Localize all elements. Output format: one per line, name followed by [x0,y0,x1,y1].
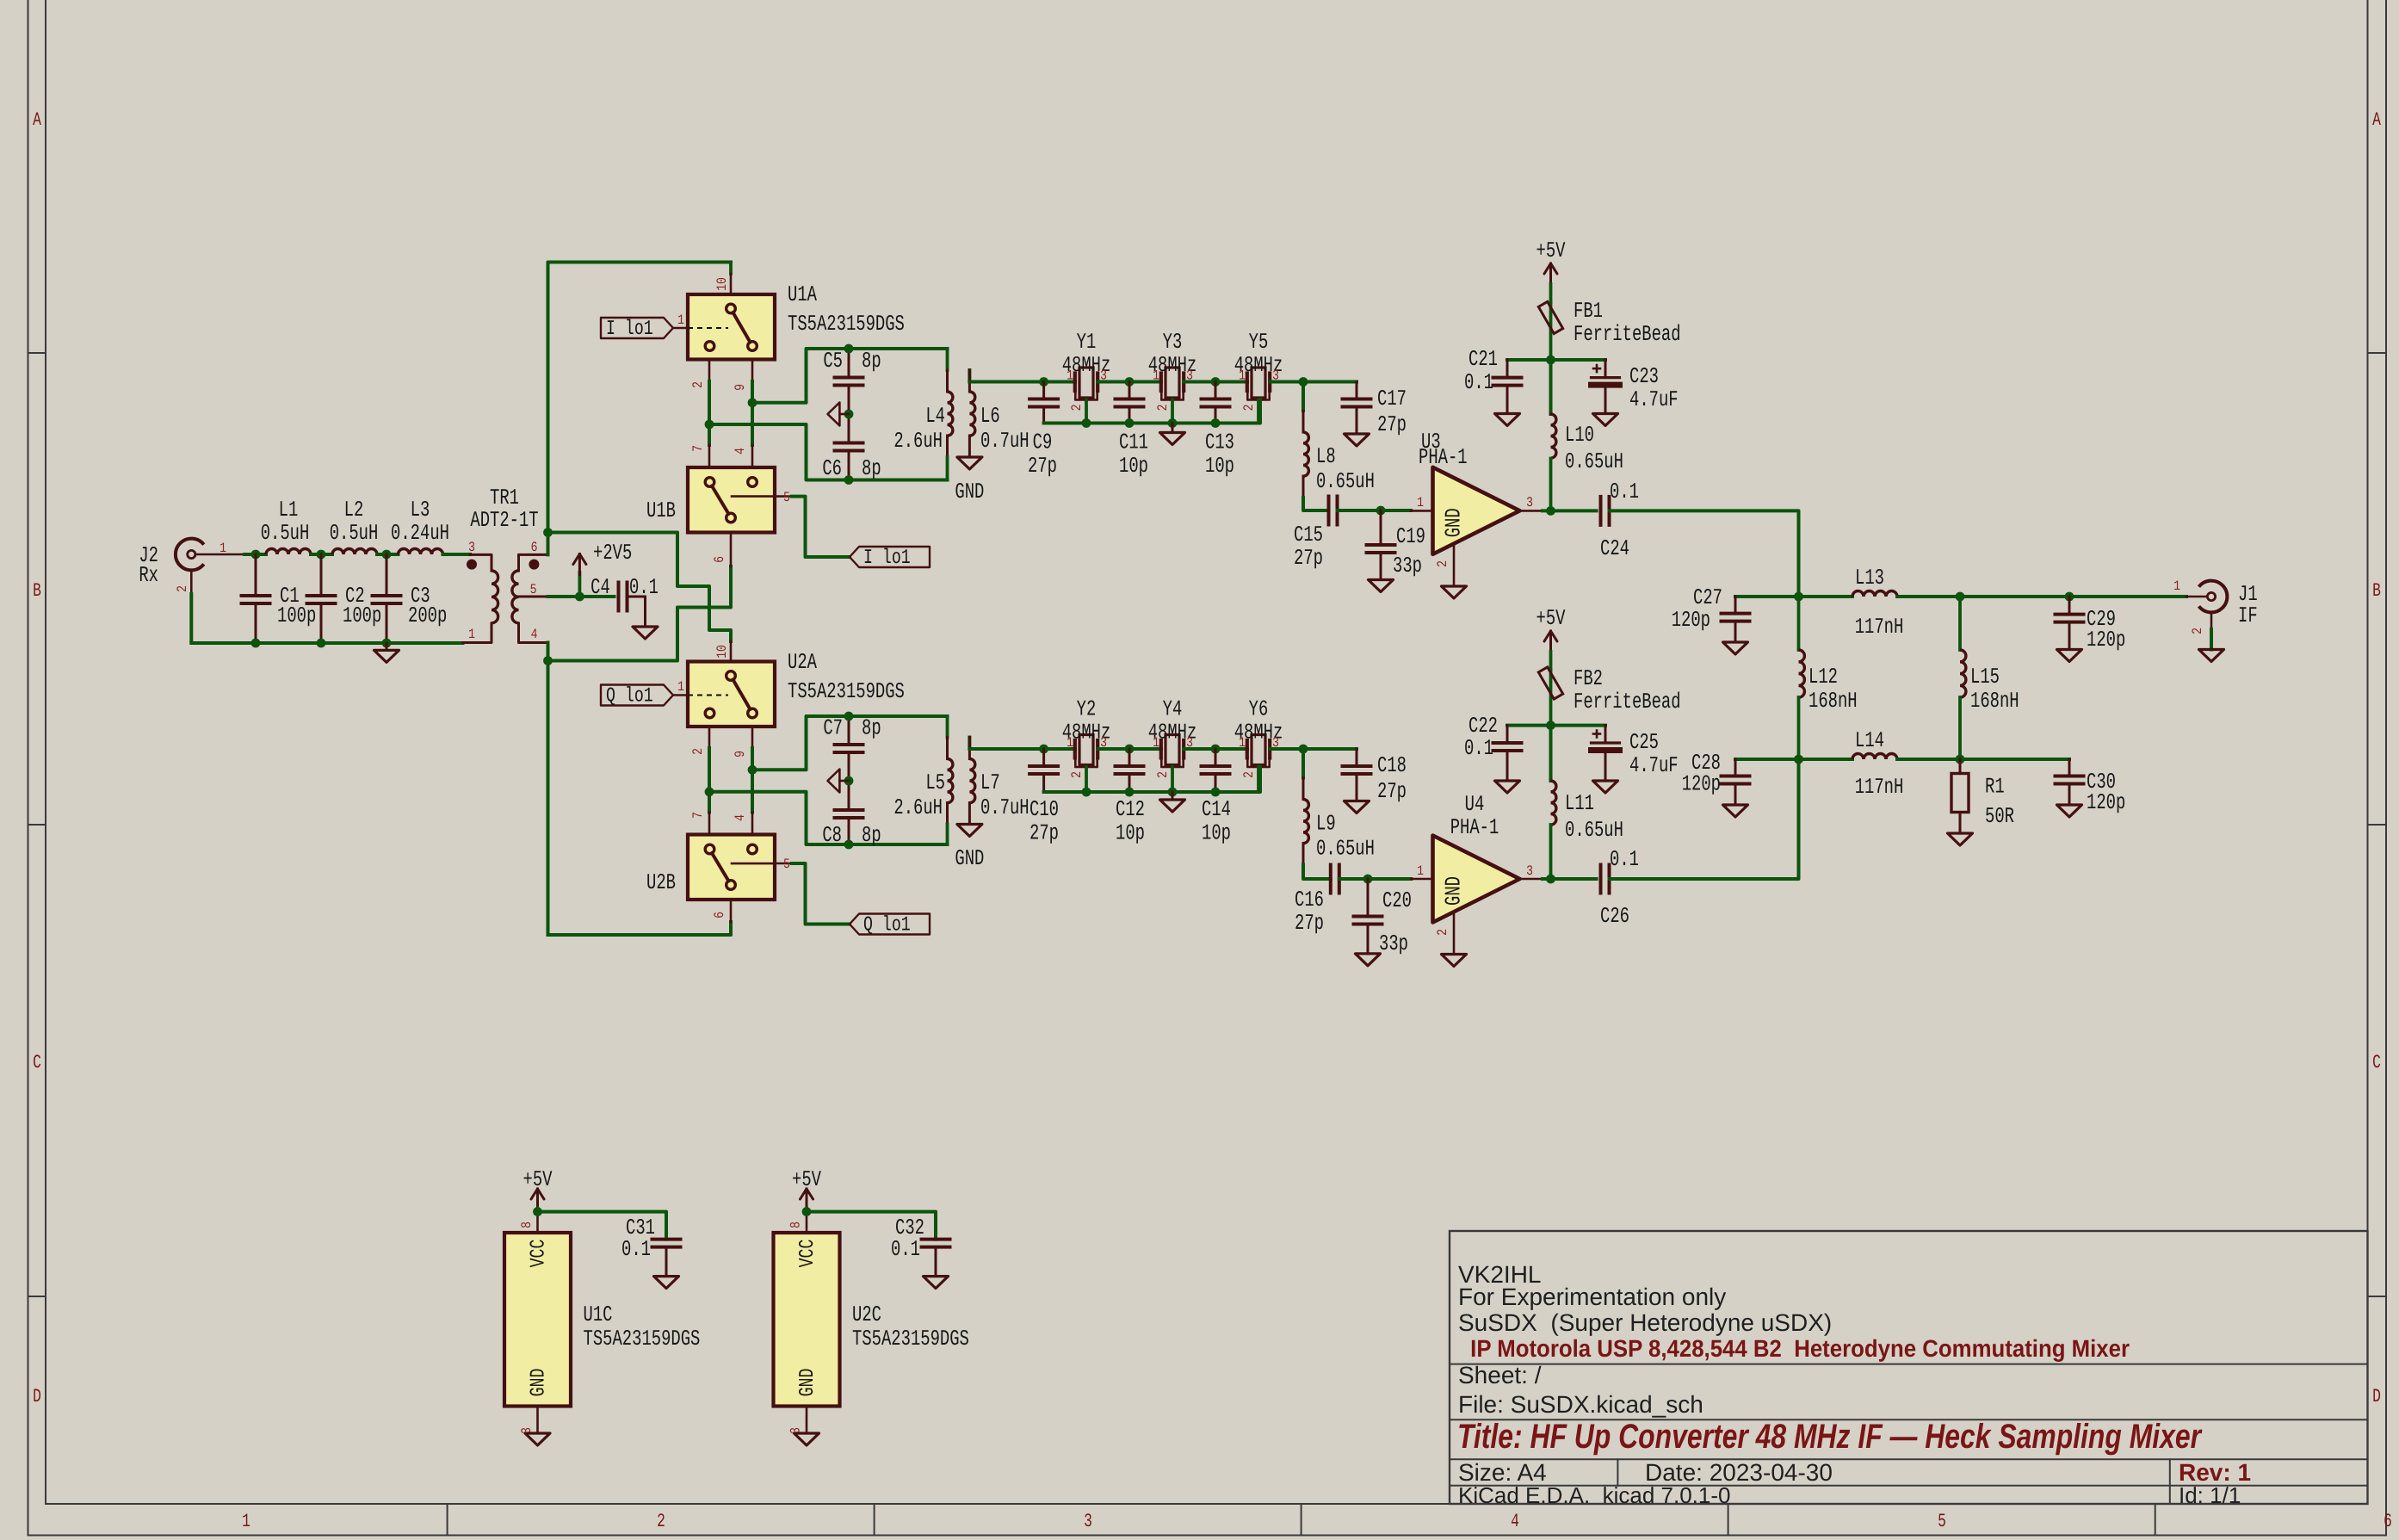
J1 pin 2 [2190,612,2211,634]
svg-text:9: 9 [733,384,748,391]
junction C7 top [844,712,854,721]
junction C3/rail [382,639,392,648]
svg-text:6: 6 [712,556,727,563]
junction C5 top [844,344,854,354]
U4 pin 1 [1411,863,1432,879]
svg-text:C21: C21 [1468,347,1498,372]
svg-text:GND: GND [955,479,984,504]
junction C11 node [1125,377,1135,387]
svg-text:117nH: 117nH [1855,615,1904,640]
svg-text:For Experimentation only: For Experimentation only [1458,1283,1726,1310]
svg-text:TR1: TR1 [490,486,519,510]
switch U1B [646,467,775,533]
svg-text:50R: 50R [1985,804,2014,829]
crystal Y5 [1247,368,1270,424]
connector J2 [139,539,203,588]
U2A pin 1 [673,679,688,696]
wire U2A pin2 to U2B pin7 [708,748,711,813]
svg-text:6: 6 [531,540,538,555]
capacitor C14 [1202,749,1231,846]
ground symbol under C31 [654,1277,679,1289]
wire U2B pin6 return [548,922,732,935]
title block date [1645,1459,1833,1486]
svg-text:C: C [33,1052,41,1073]
wire C24 to IF node [1610,510,1799,597]
net-tie arrow at C5/C6 mid [828,403,850,426]
capacitor C5 [823,349,881,414]
svg-text:1: 1 [1067,735,1073,751]
svg-text:8p: 8p [862,349,881,374]
svg-text:L11: L11 [1565,791,1594,816]
svg-text:6: 6 [2384,1511,2392,1532]
svg-text:+5V: +5V [1536,606,1566,631]
ground symbol at LPF rail [374,643,399,662]
svg-text:120p: 120p [2087,790,2125,815]
svg-text:168nH: 168nH [1809,689,1858,714]
svg-text:4.7uF: 4.7uF [1629,753,1679,778]
svg-text:4.7uF: 4.7uF [1629,387,1679,412]
junction TR1 pin4 node [543,656,553,665]
inductor L7 [969,738,1029,825]
U1C pin 3 [519,1407,538,1434]
capacitor C9 [1028,382,1058,479]
inductor L9 [1303,749,1375,879]
svg-text:C20: C20 [1382,888,1412,913]
svg-text:Y6: Y6 [1249,697,1269,722]
U2C pin 3 [788,1407,807,1434]
svg-text:8p: 8p [862,716,881,741]
crystal Y1 labels [1062,330,1111,411]
svg-text:2.6uH: 2.6uH [893,795,943,820]
svg-text:L15: L15 [1970,665,2000,690]
svg-text:SuSDX (Super Heterodyne uSDX): SuSDX (Super Heterodyne uSDX) [1458,1309,1832,1336]
svg-text:L3: L3 [411,498,430,523]
svg-text:0.24uH: 0.24uH [391,521,449,546]
svg-text:10: 10 [714,645,730,659]
svg-text:117nH: 117nH [1855,775,1904,800]
wire FB2 rail [1507,724,1605,727]
svg-text:C: C [2372,1052,2381,1073]
capacitor C28 stub [1735,758,1799,761]
capacitor C21 [1464,347,1521,414]
capacitor C26 [1600,847,1639,929]
junction C14 node [1211,745,1221,754]
svg-text:2: 2 [1435,560,1450,567]
svg-text:Y1: Y1 [1077,330,1097,355]
ground symbol under C22 [1495,781,1520,793]
svg-text:0.65uH: 0.65uH [1565,449,1623,474]
junction C9 node [1039,377,1048,387]
svg-text:C18: C18 [1377,753,1407,778]
junction at L3/C3 node [382,550,392,560]
junction FB1 node [1546,356,1555,365]
J2 pin 2 [175,570,191,594]
svg-text:0.65uH: 0.65uH [1316,837,1375,862]
power unit U2C [774,1233,969,1407]
crystal Y3 labels [1148,330,1197,411]
U2B pin 5 [775,857,850,925]
junction Y2 pin2/bus [1082,788,1091,797]
U3 pin 2 [1435,544,1454,586]
svg-text:C8: C8 [822,823,842,848]
U2B pin 7 [690,812,709,834]
junction U1C pin8 [533,1207,542,1216]
svg-text:0.1: 0.1 [891,1237,920,1262]
junction IF node [1794,592,1803,602]
wire FB1 node to L10 [1549,360,1553,414]
inductor L10 [1551,414,1623,510]
svg-text:C11: C11 [1119,430,1148,455]
global label I lo1 (input) [601,318,673,341]
capacitor C2 [307,554,382,643]
svg-text:D: D [2372,1386,2381,1407]
junction C12/bus [1125,788,1135,797]
capacitor C32 [891,1215,949,1277]
svg-text:6: 6 [712,912,727,918]
wire U2C pin8 to C32 [807,1212,936,1240]
svg-text:U1C: U1C [584,1302,613,1327]
junction FB2 node [1546,721,1555,730]
junction C7/C8 mid [844,776,854,786]
capacitor C13 [1202,382,1234,479]
svg-text:L8: L8 [1316,444,1336,469]
svg-text:Y3: Y3 [1163,330,1183,355]
junction R1 node [1956,755,1965,764]
svg-text:R1: R1 [1985,775,2005,800]
svg-text:1: 1 [1417,495,1424,510]
svg-text:2: 2 [175,585,190,592]
junction C19 node [1376,506,1386,516]
capacitor C12 [1116,749,1145,846]
svg-text:C14: C14 [1202,797,1231,822]
wire U1C pin8 to C31 [538,1212,667,1240]
global label Q lo1 (input) [601,685,673,708]
junction C6 bottom [844,475,854,485]
svg-text:U1A: U1A [788,282,817,307]
ground symbol under C17 [1345,434,1370,446]
op-amp U3 [1419,430,1520,554]
U1A pin 2 [690,360,709,388]
ground symbol under C29 [2057,650,2082,662]
ground symbol under C19 [1369,580,1394,592]
U1B pin 4 [733,445,752,467]
U1B pin 7 [690,445,709,467]
svg-text:8: 8 [519,1221,535,1228]
inductor L14 [1852,728,1903,800]
junction C8 bottom [844,840,854,850]
svg-text:120p: 120p [1682,772,1721,797]
svg-text:10p: 10p [1116,821,1145,846]
svg-text:2.6uH: 2.6uH [893,429,943,454]
TR1 pin 6 [519,540,548,571]
svg-text:Q lo1: Q lo1 [606,685,653,708]
U3 pin 3 [1520,495,1543,510]
svg-text:0.7uH: 0.7uH [980,795,1029,820]
wire TR1 pin4 down [547,643,550,936]
svg-text:8: 8 [788,1221,804,1228]
junction L8 node [1299,377,1308,387]
svg-text:2: 2 [657,1511,665,1532]
ferrite bead FB2 [1538,666,1680,726]
svg-text:TS5A23159DGS: TS5A23159DGS [788,679,905,704]
svg-text:2: 2 [1241,771,1257,778]
svg-text:+5V: +5V [792,1167,821,1192]
U3 pin 1 [1411,495,1433,510]
svg-text:GND: GND [955,846,984,871]
crystal Y6 labels [1234,697,1283,778]
junction U3 out node [1546,506,1555,516]
U1A pin 1 [673,312,688,328]
capacitor C18 [1343,749,1407,804]
TR1 pin 3 [468,540,492,571]
junction C20 node [1363,875,1373,884]
capacitor C3 [373,554,448,643]
wire U1A pin9 to U1B pin4 [751,381,754,445]
svg-text:+5V: +5V [1536,238,1566,263]
wire pin9 node to filter top (Q) [752,716,948,770]
svg-text:2: 2 [1069,771,1085,778]
wire U1A pin2 to U1B pin7 [708,381,711,445]
crystal Y4 labels [1148,697,1197,778]
svg-text:1: 1 [1067,368,1073,384]
svg-text:GND: GND [1442,508,1467,537]
ground symbol under C20 [1356,954,1381,966]
junction TR1 pin6 node [543,528,553,537]
svg-text:L10: L10 [1565,423,1594,448]
svg-text:Title: HF Up Converter 48 MHz: Title: HF Up Converter 48 MHz IF — Heck … [1457,1418,2203,1456]
wire C15 to U3 pin1 [1338,509,1412,512]
svg-text:C17: C17 [1377,387,1407,411]
U2A pin 2 [690,727,709,755]
crystal Y6 [1247,735,1270,793]
capacitor C23 (polarized) [1592,360,1679,414]
svg-text:C7: C7 [823,716,843,741]
svg-text:3: 3 [1084,1511,1092,1532]
wire Y3 to Y5 [1184,380,1247,384]
crystal Y5 labels [1234,330,1283,411]
global label Q lo1 (output) [850,914,930,937]
svg-text:C16: C16 [1295,888,1324,912]
ground symbol under C25 [1593,781,1618,793]
svg-text:Y4: Y4 [1163,697,1183,722]
junction C29 node [2065,592,2074,602]
svg-text:Sheet: /: Sheet: / [1458,1362,1542,1388]
ground symbol under J1 [2199,650,2224,662]
svg-text:33p: 33p [1379,931,1408,956]
ground symbol at U3 pin2 [1442,586,1467,598]
svg-text:1: 1 [219,541,226,556]
svg-text:Q lo1: Q lo1 [863,914,911,937]
inductor L5 [893,716,953,844]
svg-text:27p: 27p [1029,821,1059,846]
title block comment 4 [1464,1335,2130,1362]
U1B pin 5 [775,490,850,557]
power symbol +5V (FB1) [1536,238,1566,302]
ground symbol at U4 pin2 [1442,955,1467,967]
ground symbol under C23 [1593,414,1618,426]
wire U4 pin3 to C26 [1543,877,1597,881]
svg-text:TS5A23159DGS: TS5A23159DGS [788,312,905,337]
wire IF node to L13 [1799,595,1853,598]
inductor L4 [893,349,953,480]
svg-text:L7: L7 [980,770,1000,795]
U2A pin 9 [733,727,752,758]
title block frame [1450,1231,2368,1504]
wire L13 to C29 [1897,595,2186,598]
wire J1 pin2 to ground [2210,629,2213,650]
svg-text:8p: 8p [862,823,881,848]
svg-text:0.1: 0.1 [1464,736,1493,761]
svg-text:1: 1 [677,679,684,695]
wire crystal line Y1 [1044,380,1075,384]
inductor L2 [330,498,379,554]
svg-text:L13: L13 [1855,566,1884,591]
U2C pin 8 [788,1209,807,1233]
svg-text:L12: L12 [1809,665,1838,690]
capacitor C30 [2056,759,2126,815]
junction C10 node [1039,745,1048,754]
wire pin2 node to filter bottom [709,424,948,480]
U4 pin 3 [1520,863,1543,879]
wire TR1 pin6 riser to top rail [548,263,732,555]
svg-text:120p: 120p [2087,628,2125,652]
wire Y6 to C18 [1270,747,1357,751]
title block title [1457,1418,2203,1456]
svg-text:Y5: Y5 [1249,330,1269,355]
svg-text:L14: L14 [1855,728,1884,753]
wire C26 to lower IF node [1610,759,1799,879]
svg-text:0.65uH: 0.65uH [1565,818,1623,843]
svg-text:2: 2 [2190,628,2205,634]
junction U4 out node [1546,875,1555,884]
U4 pin 2 [1435,912,1454,955]
capacitor C27 stub [1735,595,1799,598]
svg-text:168nH: 168nH [1970,689,2019,714]
svg-text:0.1: 0.1 [1610,847,1639,872]
svg-text:L5: L5 [925,770,945,795]
svg-text:ADT2-1T: ADT2-1T [470,508,538,533]
wire L14 to C30 [1897,758,2069,761]
power symbol +5V (U2C) [792,1167,821,1212]
U1B pin 6 [712,533,731,567]
svg-text:TS5A23159DGS: TS5A23159DGS [584,1327,701,1351]
svg-text:Rx: Rx [139,563,158,588]
ferrite bead FB1 [1538,299,1680,360]
svg-text:U2B: U2B [646,870,676,895]
junction C12 node [1125,745,1135,754]
inductor L13 [1852,566,1903,640]
svg-text:U1B: U1B [646,498,676,523]
junction pins 9/4 (Q) [748,765,757,775]
junction C4 tap [575,592,584,602]
inductor L3 [391,498,449,554]
junction C1/rail [251,639,261,648]
svg-text:L2: L2 [344,498,364,523]
capacitor C19 [1367,510,1425,580]
power symbol +2V5 [573,541,632,597]
U1A pin 9 [733,360,752,391]
power symbol +5V (U1C) [523,1167,553,1212]
svg-text:C15: C15 [1294,523,1323,547]
capacitor C20 [1354,879,1412,956]
svg-text:C25: C25 [1629,730,1659,755]
svg-text:C27: C27 [1693,585,1722,610]
svg-text:2: 2 [1241,405,1257,411]
capacitor C1 [242,554,317,643]
capacitor C4 [590,575,658,627]
svg-text:C24: C24 [1600,536,1629,561]
title block file [1458,1391,1703,1418]
svg-text:Y2: Y2 [1077,697,1097,722]
svg-text:GND: GND [796,1369,819,1397]
wire Y5 to C17 [1270,380,1357,384]
svg-text:I lo1: I lo1 [863,547,911,570]
junction C5/C6 mid [844,410,854,419]
svg-text:27p: 27p [1028,454,1057,479]
wire TR1 pin6 to U2A staircase [548,533,732,642]
capacitor C29 [2056,597,2126,652]
svg-text:IF: IF [2238,603,2258,628]
power symbol +5V (FB2) [1536,606,1566,670]
wire L1 to L2 [311,553,332,556]
svg-text:100p: 100p [277,603,316,628]
crystal Y1 [1075,368,1097,424]
svg-text:1: 1 [1153,735,1159,751]
ground symbol under L6 [955,457,984,504]
svg-text:C10: C10 [1029,797,1059,822]
svg-text:VCC: VCC [528,1240,551,1268]
title block comment VK2IHL [1458,1261,1542,1288]
svg-text:1: 1 [242,1511,250,1532]
svg-text:1: 1 [1153,368,1159,384]
svg-text:GND: GND [528,1369,551,1397]
svg-text:FB1: FB1 [1574,299,1603,324]
junction C2/rail [317,639,326,648]
svg-text:10p: 10p [1119,454,1148,479]
U2B pin 4 [733,813,752,835]
svg-text:A: A [33,109,41,131]
wire L2 to L3 [377,553,399,556]
title block id [2179,1482,2241,1508]
inductor L8 [1303,382,1375,511]
svg-text:200p: 200p [408,603,447,628]
svg-text:L6: L6 [980,404,1000,429]
wire pin2 node to filter bottom (Q) [709,792,948,844]
svg-text:PHA-1: PHA-1 [1450,815,1499,840]
svg-text:4: 4 [1511,1511,1519,1532]
svg-text:10p: 10p [1205,454,1234,479]
svg-text:C4: C4 [590,575,610,600]
junction pins 2/7 [705,420,714,430]
svg-text:C23: C23 [1629,364,1659,389]
junction L9 node [1299,745,1308,754]
wire Y4 to Y6 [1184,747,1247,751]
junction Y4 pin2/bus [1168,788,1178,797]
title block comment 3 [1458,1309,1832,1336]
crystal filter bus [1044,400,1260,424]
ground symbol under C18 [1345,801,1370,813]
U1A pin 10 [714,263,731,295]
svg-text:C13: C13 [1205,430,1234,455]
svg-text:8p: 8p [862,456,881,481]
svg-text:10: 10 [714,277,730,291]
svg-text:File: SuSDX.kicad_sch: File: SuSDX.kicad_sch [1458,1391,1703,1418]
svg-text:C12: C12 [1116,797,1145,822]
junction pins 9/4 [748,398,757,407]
svg-text:4: 4 [531,627,538,642]
svg-text:U2A: U2A [788,650,817,675]
svg-text:0.65uH: 0.65uH [1316,469,1375,494]
